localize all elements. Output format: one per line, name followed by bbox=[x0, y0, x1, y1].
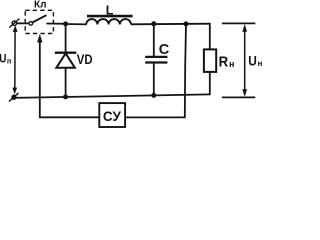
node B junction dot (capacitor top) bbox=[151, 21, 156, 26]
capacitor C top lead bbox=[153, 24, 155, 57]
inductor L winding bbox=[86, 19, 131, 24]
node E junction dot (diode-bottom wire) bbox=[63, 94, 68, 99]
wire top-left from terminal to switch box bbox=[17, 22, 29, 24]
svg-text:VD: VD bbox=[77, 52, 93, 67]
svg-text:СУ: СУ bbox=[103, 109, 122, 124]
control unit СУ box bbox=[99, 103, 125, 127]
inductor L core bar bbox=[87, 15, 133, 18]
output terminal bar bottom bbox=[222, 96, 255, 98]
node input terminal top bbox=[9, 19, 19, 28]
capacitor C bottom lead bbox=[153, 63, 155, 96]
node A junction dot (switch/diode/L) bbox=[63, 21, 68, 26]
switch S1 contact bbox=[29, 15, 46, 25]
capacitor C plates bbox=[145, 57, 167, 63]
diode VD anode lead bbox=[65, 68, 67, 97]
control wire СУ to switch with arrow bbox=[37, 35, 99, 118]
node F junction dot (capacitor-bottom wire) bbox=[151, 93, 156, 98]
wire switch to node A bbox=[46, 23, 65, 25]
feedback wire node D to СУ bbox=[126, 24, 186, 117]
svg-text:U: U bbox=[248, 54, 257, 69]
svg-text:п: п bbox=[7, 57, 12, 66]
svg-text:Кл: Кл bbox=[34, 0, 46, 11]
svg-text:н: н bbox=[229, 59, 234, 69]
svg-text:н: н bbox=[258, 59, 263, 68]
output terminal bar top bbox=[222, 22, 255, 24]
svg-text:L: L bbox=[106, 3, 114, 17]
wire node A to inductor bbox=[66, 23, 87, 25]
bottom rail wire bbox=[12, 94, 210, 98]
wire inductor to output corner bbox=[131, 23, 211, 26]
svg-text:C: C bbox=[159, 42, 170, 58]
svg-text:U: U bbox=[0, 51, 6, 65]
diode VD symbol bbox=[55, 53, 77, 68]
voltage arrow Uп bbox=[13, 26, 18, 94]
resistor Rн bottom lead bbox=[209, 72, 211, 95]
voltage arrow Uн bbox=[243, 25, 247, 97]
resistor Rн top lead bbox=[209, 23, 211, 49]
resistor Rн body bbox=[204, 49, 216, 72]
switch Кл dashed enclosure bbox=[25, 10, 53, 33]
node input terminal bottom bbox=[9, 93, 18, 102]
svg-text:R: R bbox=[219, 53, 229, 70]
node D junction dot (feedback tap) bbox=[184, 21, 189, 26]
diode VD cathode lead bbox=[65, 24, 67, 53]
